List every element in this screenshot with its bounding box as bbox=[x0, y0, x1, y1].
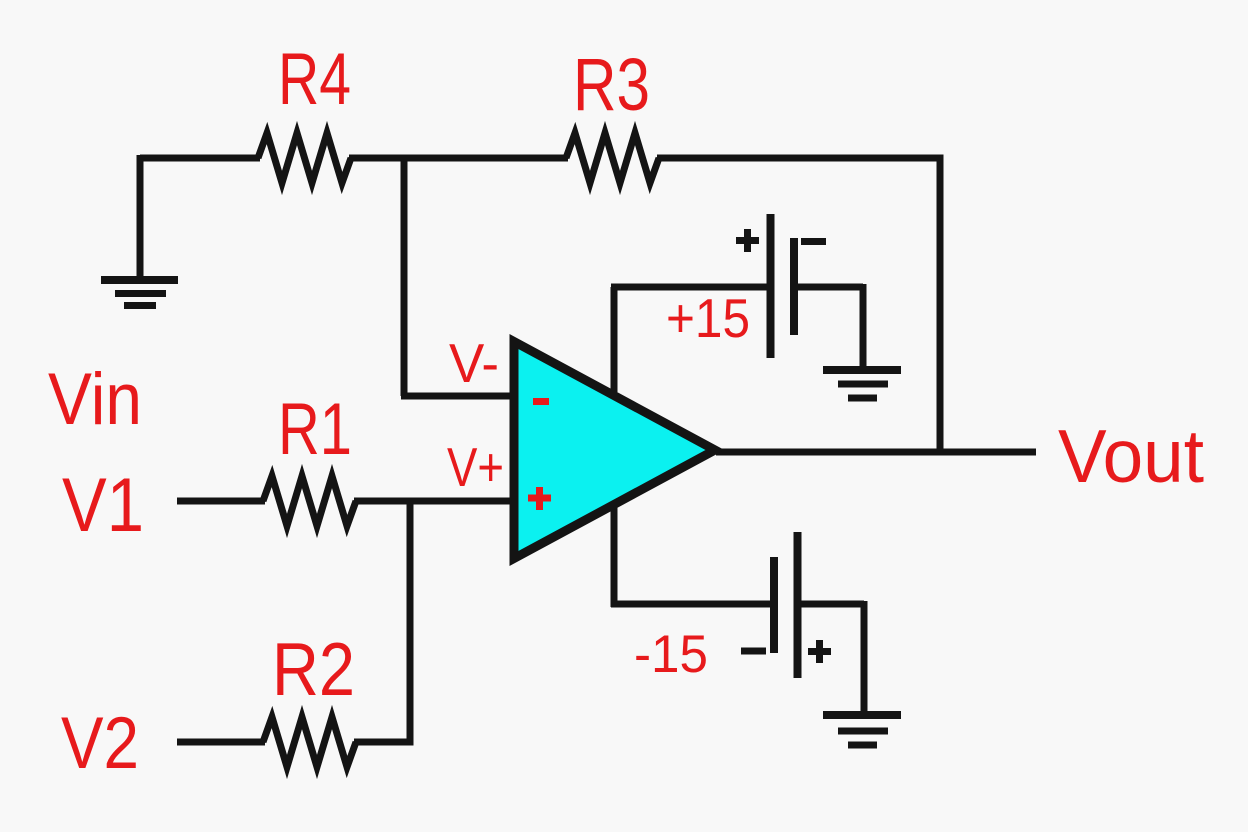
wire: V- input into op-amp bbox=[401, 393, 516, 400]
wire: V1 lead to R1 bbox=[177, 498, 265, 505]
svg-text:V2: V2 bbox=[61, 703, 139, 784]
wire: V+ supply horizontal to battery B1 bbox=[611, 284, 767, 291]
wire: feedback vertical from R3 down to output bbox=[937, 158, 944, 452]
resistor R4 bbox=[258, 133, 351, 183]
svg-text:R1: R1 bbox=[278, 389, 352, 470]
wire: V2 lead to R2 bbox=[177, 739, 265, 746]
wire: op-amp output to Vout bbox=[716, 449, 1036, 456]
svg-text:Vin: Vin bbox=[48, 359, 142, 440]
ground G1 (top left) bbox=[101, 280, 178, 306]
svg-text:R4: R4 bbox=[278, 39, 351, 120]
op-amp non-inverting input mark (red plus) bbox=[528, 487, 551, 510]
wire: V- supply vertical from op-amp bottom bbox=[611, 503, 618, 607]
B2 minus sign bbox=[741, 648, 766, 655]
wire: top-left segment to R4 bbox=[140, 155, 260, 162]
ground G2 (under B1) bbox=[823, 370, 901, 398]
svg-text:V+: V+ bbox=[447, 436, 504, 498]
wire: B1 negative side to ground drop bbox=[796, 284, 863, 291]
resistor R1 bbox=[263, 476, 356, 526]
wire: B2 positive side to ground drop bbox=[800, 601, 864, 608]
resistor R2 bbox=[263, 717, 356, 767]
wire: V+ supply vertical from op-amp top bbox=[611, 287, 618, 392]
B2 positive plate (long) bbox=[794, 532, 802, 678]
resistor R3 bbox=[566, 133, 659, 183]
wire: R1 to V+ input of op-amp bbox=[354, 498, 516, 505]
B2 plus sign bbox=[808, 648, 831, 655]
battery B2 (-15 supply) bbox=[741, 532, 831, 678]
op-amp U1 bbox=[514, 342, 715, 559]
op-amp inverting input mark (red minus) bbox=[533, 398, 549, 405]
wire: R2 to node B bbox=[354, 739, 414, 746]
wire: R4 to node A bbox=[349, 155, 568, 162]
wire: R3 to top-right corner bbox=[657, 155, 944, 162]
node A vertical wire down to V- input bbox=[401, 158, 408, 396]
wire: left drop to ground bbox=[137, 155, 144, 281]
B1 positive plate (long) bbox=[767, 214, 775, 358]
svg-text:+15: +15 bbox=[666, 287, 750, 349]
wire: V- supply horizontal to battery B2 bbox=[611, 601, 771, 608]
B1 plus sign bbox=[736, 237, 759, 244]
svg-text:V-: V- bbox=[449, 332, 499, 394]
B2 negative plate (short) bbox=[770, 557, 778, 653]
B1 minus sign bbox=[801, 238, 826, 245]
svg-text:V1: V1 bbox=[62, 463, 144, 548]
B1 negative plate (short) bbox=[790, 238, 798, 335]
svg-text:R2: R2 bbox=[272, 627, 355, 711]
svg-text:Vout: Vout bbox=[1058, 414, 1204, 498]
svg-text:R3: R3 bbox=[573, 43, 650, 126]
svg-text:-15: -15 bbox=[634, 625, 708, 684]
ground G3 (under B2) bbox=[823, 715, 901, 745]
node B vertical wire down to R2 bbox=[407, 501, 414, 746]
battery B1 (+15 supply) bbox=[736, 214, 826, 358]
